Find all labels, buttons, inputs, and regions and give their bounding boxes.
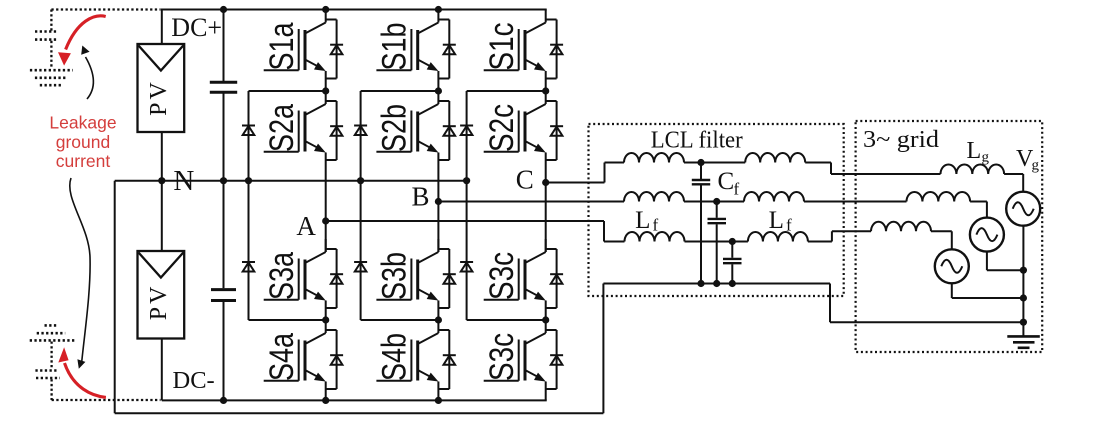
- wire: A source to common node: [952, 284, 1024, 298]
- diode: upper clamp diode leg a: [242, 126, 255, 136]
- node: S1a/S2a junction: [322, 87, 329, 94]
- svg-text:N: N: [173, 165, 194, 197]
- svg-text:S3c: S3c: [483, 252, 521, 300]
- node: cap top at DC+ rail: [220, 6, 227, 13]
- svg-text:f: f: [786, 216, 792, 235]
- transistor S3b (IGBT, row 3): [376, 239, 438, 320]
- label: Vg: [1016, 146, 1040, 174]
- wire: N line: [115, 180, 468, 182]
- node: S3/S4 junction leg a: [322, 316, 329, 323]
- node: DC- junction leg b: [435, 397, 442, 404]
- wire: Cf cap phase C column: [700, 163, 702, 284]
- wire: PV1 to node N: [161, 132, 163, 181]
- diode: antiparallel diode of S2b: [438, 101, 455, 160]
- label: S1c: [483, 23, 521, 71]
- source: AC source phase B: [970, 218, 1004, 252]
- inductor Lf (phase B, inverter side): [624, 192, 684, 201]
- svg-text:g: g: [1032, 158, 1040, 174]
- svg-text:S2a: S2a: [263, 104, 301, 152]
- label: Cf: [718, 168, 740, 199]
- inductor Lg (phase A): [871, 222, 931, 232]
- svg-text:PV: PV: [146, 284, 172, 321]
- wire: clamp bottom wire leg c: [467, 319, 546, 321]
- svg-text:g: g: [982, 150, 990, 166]
- wire: dotted leakage wire from DC+ to parasitic capacitance: [51, 10, 160, 32]
- label: Lf right: [769, 207, 792, 235]
- node: top rail junction leg a: [322, 6, 329, 13]
- svg-text:L: L: [967, 138, 982, 164]
- wire: dotted leakage wire to DC- rail: [52, 379, 161, 400]
- svg-text:S2b: S2b: [376, 104, 414, 152]
- svg-text:Leakage: Leakage: [49, 113, 116, 133]
- svg-text:f: f: [653, 216, 659, 235]
- wire: node N to PV2: [161, 181, 163, 251]
- wire: clamp top wire leg c: [467, 90, 546, 92]
- diode: upper clamp diode leg c: [460, 126, 473, 136]
- wire: clamp top wire leg b: [361, 90, 439, 92]
- capacitor Cf (phase A): [723, 259, 742, 263]
- svg-text:C: C: [718, 168, 735, 195]
- svg-text:PV: PV: [146, 79, 172, 116]
- ground: grid earth: [1007, 336, 1040, 347]
- wire: C row exit step down: [805, 163, 940, 175]
- svg-text:C: C: [516, 165, 534, 195]
- label: S1b: [376, 23, 414, 71]
- wire: neutral return (bus to bottom run): [602, 284, 604, 414]
- node: top rail junction leg b: [435, 6, 442, 13]
- node C: [542, 179, 549, 186]
- label: S4a: [263, 333, 301, 381]
- transistor S1b (IGBT, row 1): [376, 10, 438, 92]
- wire: Cf cap phase B column: [716, 202, 718, 284]
- label: S3c: [483, 333, 521, 381]
- wire: DC+ rail: [162, 9, 547, 11]
- svg-text:S4b: S4b: [376, 333, 414, 381]
- label: S2b: [376, 104, 414, 152]
- wire: A row to Cf junction: [685, 241, 748, 243]
- arrow: red leakage current arrow (top): [58, 16, 106, 66]
- wire: B row to source: [970, 202, 987, 218]
- diode: antiparallel diode of S3c: [546, 330, 563, 389]
- wire: phase A line: [326, 220, 604, 222]
- diode: upper clamp diode leg b: [354, 126, 367, 136]
- inductor Lg (phase C): [941, 164, 1005, 174]
- node A: [322, 217, 329, 224]
- wire: C row to Vg source: [1004, 174, 1023, 192]
- svg-text:DC+: DC+: [171, 13, 222, 42]
- capacitor Cf (phase B): [708, 219, 727, 223]
- label: N: [173, 165, 194, 197]
- wire: clamp bottom wire leg a: [249, 319, 326, 321]
- svg-text:S3c: S3c: [483, 333, 521, 381]
- capacitor C2 (DC link bottom): [211, 290, 236, 301]
- node: Cf bus junction C: [697, 280, 704, 287]
- wire: DC-link capacitor column (bottom): [223, 181, 225, 401]
- transistor S3c (IGBT, row 4): [484, 320, 546, 400]
- svg-text:current: current: [56, 151, 111, 171]
- inductor Lf (phase C, inverter side): [624, 153, 684, 163]
- label: PV (top panel): [146, 79, 172, 116]
- wire: A row to source: [931, 231, 952, 249]
- node: neutral junction: [1020, 319, 1027, 326]
- wire: phase-b to S3b collector: [437, 202, 439, 253]
- svg-text:S1a: S1a: [263, 22, 301, 70]
- svg-text:DC-: DC-: [173, 367, 215, 394]
- wire: A row exit step up: [808, 231, 871, 241]
- diode: antiparallel diode of S4a: [326, 330, 343, 389]
- arrow: squiggly pointer to top ground: [81, 46, 93, 100]
- transistor S1a (IGBT, row 1): [264, 10, 326, 92]
- source: AC source phase A: [935, 249, 969, 283]
- node: clamp-N junction leg b: [357, 177, 364, 184]
- wire: Cf cap phase A column: [731, 242, 733, 284]
- label: S3b: [376, 252, 414, 300]
- node: Cf junction phase A: [729, 238, 736, 245]
- transistor S4b (IGBT, row 4): [376, 320, 438, 400]
- wire: grid common neutral vertical: [1022, 226, 1024, 336]
- inductor Lf (phase A, grid side): [748, 232, 808, 242]
- label: S2a: [263, 104, 301, 152]
- node: S1c/S2c junction: [542, 87, 549, 94]
- label: S3a: [263, 252, 301, 300]
- wire: clamp top wire leg a: [249, 90, 326, 92]
- arrow: red leakage current arrow (bottom): [58, 347, 106, 397]
- label: S4b: [376, 333, 414, 381]
- label: S1a: [263, 22, 301, 70]
- wire: neutral bottom run: [115, 412, 604, 414]
- diode: lower clamp diode leg b: [354, 262, 367, 272]
- node B: [435, 198, 442, 205]
- svg-text:S2c: S2c: [483, 104, 521, 152]
- svg-text:S1c: S1c: [483, 23, 521, 71]
- svg-text:S3b: S3b: [376, 252, 414, 300]
- node: Cf bus junction A: [729, 280, 736, 287]
- capacitor: parasitic capacitance to ground (bottom): [35, 371, 60, 379]
- source Vg (phase C): [1006, 192, 1040, 226]
- wire: DC+ lead from PV1: [161, 9, 163, 45]
- ground: earth symbol bottom-left (dashed, inverted): [30, 325, 75, 340]
- node: Cf junction phase C: [697, 159, 704, 166]
- svg-text:L: L: [635, 207, 650, 234]
- transistor S4a (IGBT, row 4): [264, 320, 326, 400]
- inductor Lf (phase A, inverter side): [625, 232, 685, 242]
- wire: neutral bus to grid ground: [830, 284, 1023, 323]
- capacitor: parasitic capacitance to ground (top): [35, 32, 57, 40]
- inductor Lf (phase B, grid side): [744, 192, 804, 201]
- label: DC-: [173, 367, 215, 394]
- label: DC+: [171, 13, 222, 42]
- node: S3/S4 junction leg b: [435, 316, 442, 323]
- wire: dashed stem to earth (top-left): [50, 41, 52, 69]
- transistor S2c (IGBT, row 2): [484, 91, 546, 183]
- label: B: [411, 182, 429, 212]
- diode: antiparallel diode of S4b: [438, 330, 455, 389]
- wire: B row exit: [804, 201, 907, 203]
- node: DC- junction leg a: [322, 397, 329, 404]
- wire: DC- rail: [162, 399, 547, 401]
- wire: neutral left rise: [114, 181, 116, 414]
- inductor Lg (phase B): [907, 192, 971, 202]
- transistor S3a (IGBT, row 3): [264, 239, 326, 320]
- wire: clamp column leg a: [248, 91, 250, 320]
- label: C: [516, 165, 534, 195]
- label: PV (bottom panel): [146, 284, 172, 321]
- diode: antiparallel diode of S2c: [546, 101, 563, 160]
- label: Lf left: [635, 207, 658, 235]
- diode: lower clamp diode leg c: [460, 262, 473, 272]
- wire: C step up into filter: [605, 163, 625, 183]
- node: A source junction: [1020, 294, 1027, 301]
- transistor S1c (IGBT, row 1): [484, 10, 546, 92]
- wire: PV2 to DC- rail: [161, 339, 163, 401]
- svg-text:3~ grid: 3~ grid: [863, 127, 939, 153]
- PV panel PV2: [138, 251, 185, 339]
- wire: phase-c to S3c collector: [545, 183, 547, 253]
- wire: Cf common bus: [603, 283, 830, 285]
- label: Leakage ground current (red): [49, 113, 116, 172]
- node: clamp-N junction leg c: [463, 177, 470, 184]
- wire: phase C line: [546, 182, 605, 184]
- diode: lower clamp diode leg a: [242, 262, 255, 272]
- wire: DC-link capacitor column (top): [223, 10, 225, 181]
- wire: phase B line: [438, 201, 624, 203]
- wire: clamp bottom wire leg b: [361, 319, 439, 321]
- node: S3/S4 junction leg c: [542, 316, 549, 323]
- node: clamp-N junction leg a: [245, 177, 252, 184]
- svg-text:B: B: [411, 182, 429, 212]
- diode: antiparallel diode of S3b: [438, 249, 455, 308]
- svg-text:S3a: S3a: [263, 252, 301, 300]
- node N junction: [158, 177, 165, 184]
- label: S3c: [483, 252, 521, 300]
- svg-text:S1b: S1b: [376, 23, 414, 71]
- wire: dashed stem bottom-left: [50, 342, 52, 370]
- svg-text:LCL filter: LCL filter: [651, 128, 743, 154]
- wire: B source to common node: [987, 252, 1024, 271]
- svg-text:f: f: [734, 180, 740, 199]
- transistor S2a (IGBT, row 2): [264, 91, 326, 221]
- diode: antiparallel diode of S2a: [326, 101, 343, 160]
- node: cap bottom at DC- rail: [220, 397, 227, 404]
- node: cap midpoint at N: [220, 177, 227, 184]
- capacitor C1 (DC link top): [210, 82, 237, 92]
- diode: antiparallel diode of S3c: [546, 249, 563, 308]
- node: Cf bus junction B: [713, 280, 720, 287]
- label: A: [296, 211, 316, 241]
- wire: C row to Cf junction: [684, 162, 745, 164]
- wire: clamp column leg b: [360, 91, 362, 320]
- wire: B row to Cf junction: [684, 201, 744, 203]
- node: S1b/S2b junction: [435, 87, 442, 94]
- transistor S3c (IGBT, row 3): [484, 239, 546, 320]
- svg-text:A: A: [296, 211, 316, 241]
- wire: clamp column leg c: [466, 91, 468, 320]
- svg-text:ground: ground: [56, 132, 111, 152]
- node: B source junction: [1020, 267, 1027, 274]
- svg-text:S4a: S4a: [263, 333, 301, 381]
- node: Cf junction phase B: [713, 198, 720, 205]
- diode: antiparallel diode of S1c: [546, 20, 563, 79]
- inductor Lf (phase C, grid side): [745, 153, 805, 163]
- diode: antiparallel diode of S3a: [326, 249, 343, 308]
- box: 3-phase grid dashed border: [856, 121, 1043, 352]
- wire: phase-a to S3a collector: [325, 221, 327, 252]
- label: LCL filter: [651, 128, 743, 154]
- diode: antiparallel diode of S1b: [438, 20, 455, 79]
- transistor S2b (IGBT, row 2): [376, 91, 438, 202]
- box: LCL filter dashed border: [589, 124, 844, 296]
- label: 3~ grid: [863, 127, 939, 153]
- label: S2c: [483, 104, 521, 152]
- PV panel PV1: [138, 44, 185, 132]
- ground: earth symbol top-left (dashed): [30, 70, 73, 85]
- capacitor Cf (phase C): [692, 180, 710, 184]
- label: Lg: [967, 138, 990, 166]
- svg-text:L: L: [769, 207, 784, 234]
- wire: A step down into filter: [604, 221, 625, 242]
- diode: antiparallel diode of S1a: [326, 20, 343, 79]
- arrow: squiggly pointer to bottom ground: [70, 178, 90, 369]
